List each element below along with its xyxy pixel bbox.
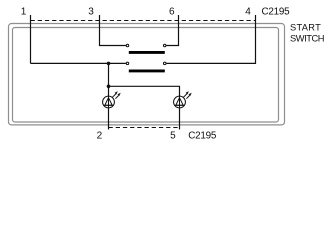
pin 2 label [97,131,103,142]
junction node on middle row [107,62,111,66]
svg-text:3: 3 [88,7,94,18]
contact circle top left [126,44,129,47]
contact circle middle left [126,62,129,65]
wire pin 6 lead down and left to top contact [166,15,178,46]
svg-text:6: 6 [169,7,175,18]
pin 4 label [245,7,251,18]
connector C2195 bottom dashed line [109,127,180,129]
junction node on LED branch [107,85,111,89]
pin 3 label [88,7,94,18]
svg-text:C2195: C2195 [188,131,217,142]
connector C2195 bottom label [188,131,217,142]
wire pin 3 lead down and right to top contact [100,15,126,46]
wire LED1 to pin 2 [108,108,110,129]
wire branch to LED2 [109,86,180,96]
svg-text:SWITCH: SWITCH [290,33,324,43]
connector C2195 top label [262,7,291,18]
connector C2195 top dashed line [31,20,256,22]
switch body outline outer [9,24,285,125]
LED indicator 1 [103,91,121,108]
LED indicator 2 [174,91,192,108]
contact circle middle right [163,62,166,65]
switch bar upper [129,51,165,54]
component name START SWITCH [290,23,324,44]
wire pin 4 lead down and left to middle contact [166,15,255,63]
wire junction down to LED1 [108,63,110,96]
svg-text:5: 5 [170,131,176,142]
wire LED2 to pin 5 [179,108,181,129]
pin 6 label [169,7,175,18]
wire middle row left from pin1 corner to contact [31,62,126,64]
svg-text:2: 2 [97,131,103,142]
svg-text:1: 1 [21,7,27,18]
pin 1 label [21,7,27,18]
switch bar lower [129,69,165,72]
svg-text:START: START [290,23,321,33]
contact circle top right [163,44,166,47]
svg-text:4: 4 [245,7,251,18]
wire pin 1 lead down to middle row [30,15,32,63]
svg-text:C2195: C2195 [262,7,291,18]
pin 5 label [170,131,176,142]
switch body outline inner [13,28,279,123]
